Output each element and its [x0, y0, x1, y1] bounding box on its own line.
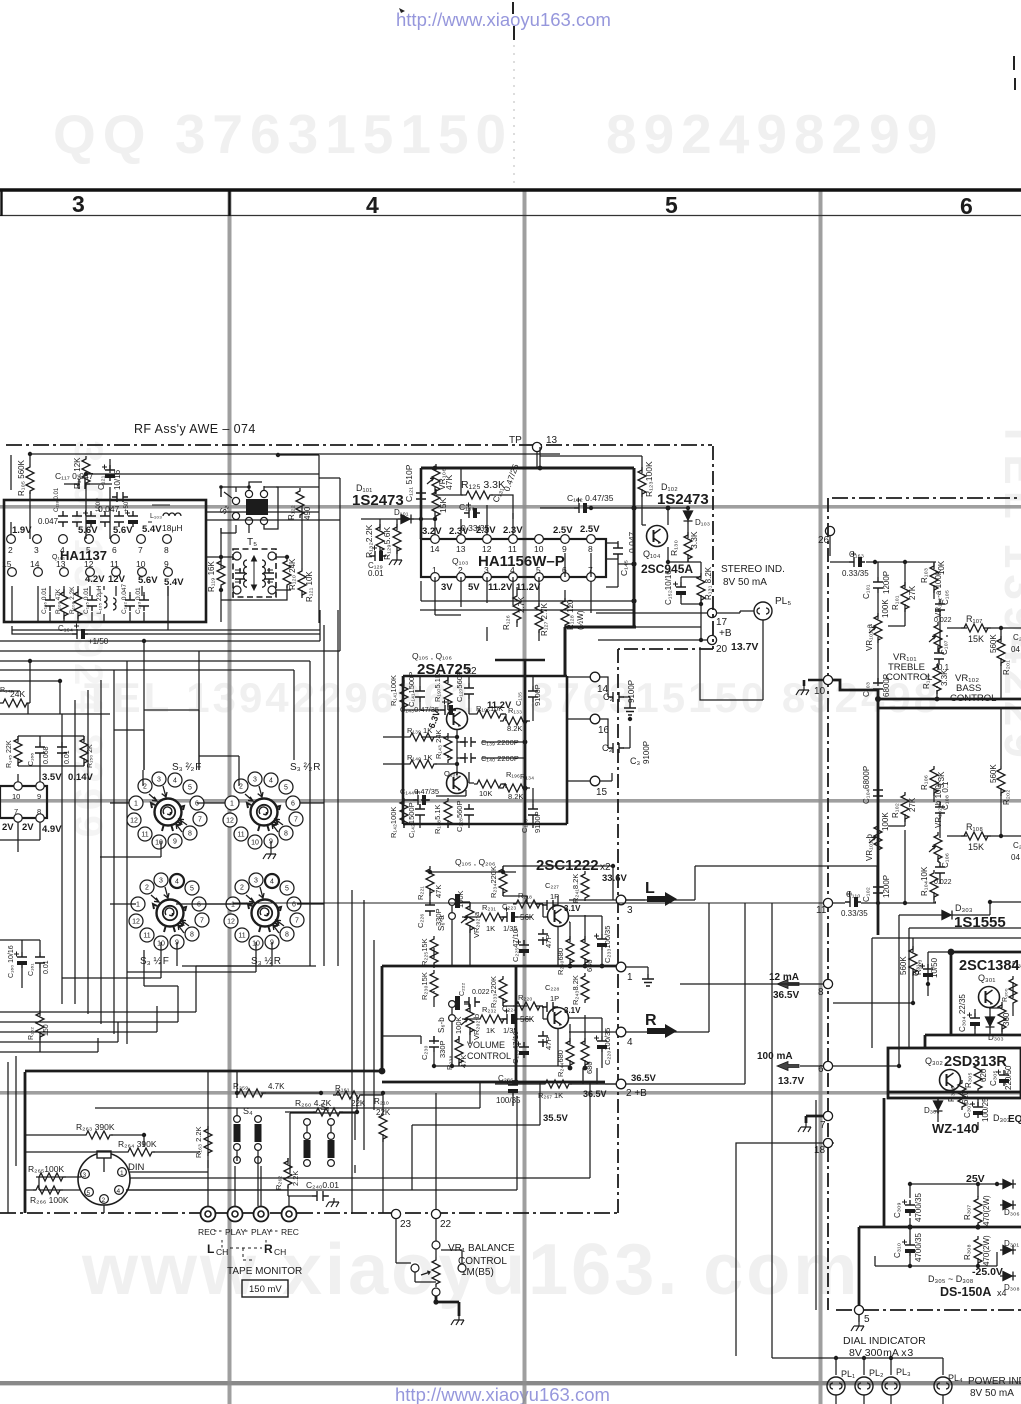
svg-text:150 mV: 150 mV [249, 1284, 282, 1295]
svg-text:S₅: S₅ [320, 1102, 330, 1112]
svg-text:27K: 27K [908, 797, 917, 812]
capacitor C110 0.33/35 [845, 892, 861, 908]
wire bus upper left [0, 610, 338, 1044]
svg-text:PLAY: PLAY [251, 1227, 272, 1237]
jack PLAY L [228, 1207, 243, 1222]
svg-text:S₄: S₄ [243, 1106, 253, 1116]
svg-text:5: 5 [86, 545, 91, 555]
svg-text:C₁₃₀: C₁₃₀ [459, 502, 475, 512]
lamp PL2 [855, 1377, 873, 1395]
svg-text:470(2W): 470(2W) [982, 1235, 991, 1266]
svg-text:D₃₀: D₃₀ [1012, 960, 1021, 969]
svg-text:R₁₂₉5.6K: R₁₂₉5.6K [382, 527, 392, 560]
svg-text:QQ 376315150: QQ 376315150 [53, 103, 513, 165]
node 16 [590, 714, 600, 724]
resistor R135 10K [474, 710, 504, 718]
svg-text:R₁₀₃: R₁₀₃ [920, 568, 929, 583]
wire thick bus [833, 680, 1021, 935]
svg-text:VR₁₀₂-b 100K: VR₁₀₂-b 100K [934, 779, 943, 828]
jack REC L [201, 1207, 216, 1222]
resistor R120 24K [283, 558, 291, 588]
svg-text:04: 04 [1011, 853, 1020, 862]
resistor R107 15K [961, 624, 991, 632]
svg-text:4.7K: 4.7K [268, 1082, 285, 1091]
svg-text:10: 10 [814, 686, 826, 697]
svg-text:360: 360 [1002, 1012, 1011, 1026]
transistor Q104 2SC945A [647, 526, 668, 547]
svg-text:11: 11 [816, 905, 827, 916]
svg-text:6: 6 [960, 193, 973, 219]
svg-text:560K: 560K [899, 956, 908, 975]
capacitor C128 510P [416, 488, 426, 504]
svg-text:5.6V: 5.6V [113, 525, 133, 536]
capacitor C144 0.47/35 [413, 790, 429, 806]
capacitor C136 9100P [528, 804, 538, 820]
svg-text:R₁₃₃: R₁₃₃ [508, 706, 522, 715]
SECTIONS [0, 422, 712, 835]
svg-text:R₃₀₀: R₃₀₀ [1002, 988, 1009, 1002]
svg-text:D₁₀₁: D₁₀₁ [394, 508, 409, 517]
resistor R126 2.7K [513, 593, 521, 623]
resistor R267 1K [542, 1080, 572, 1088]
svg-text:100K: 100K [454, 1016, 463, 1034]
IC box partial left [0, 786, 47, 818]
svg-text:27K: 27K [908, 585, 917, 600]
svg-text:13: 13 [546, 435, 558, 446]
resistor R244 680 [566, 1038, 574, 1068]
resistor R140 1K [407, 760, 437, 768]
svg-text:R₂₅₉: R₂₅₉ [233, 1082, 248, 1091]
transistor Q206 [548, 1008, 569, 1029]
node 15 [590, 776, 600, 786]
svg-text:2: 2 [458, 565, 463, 575]
svg-text:0.022: 0.022 [472, 989, 490, 996]
resistor R243 8.2K [581, 973, 589, 1003]
svg-text:C₁₁₀: C₁₁₀ [846, 890, 861, 899]
capacitor C103 6800P [873, 678, 883, 694]
svg-text:1200P: 1200P [882, 571, 891, 594]
svg-text:R₁₂₃100K: R₁₂₃100K [644, 461, 654, 497]
capacitor C166 0.068 [35, 742, 45, 758]
svg-text:2V: 2V [2, 822, 14, 833]
dash-dot main-amp border [832, 497, 1021, 499]
svg-text:8.2K: 8.2K [508, 792, 523, 801]
svg-text:http://www.xiaoyu163.com: http://www.xiaoyu163.com [395, 1384, 610, 1404]
node 22 [431, 1209, 440, 1218]
svg-text:4700/35: 4700/35 [914, 1193, 923, 1222]
svg-text:VR₁₀₂-a 100K: VR₁₀₂-a 100K [934, 569, 943, 618]
svg-text:1P: 1P [550, 994, 559, 1003]
svg-text:R₂₄₄680: R₂₄₄680 [556, 1050, 565, 1077]
capacitor C164 1/50 [72, 624, 88, 640]
svg-text:100/25: 100/25 [981, 1097, 990, 1122]
svg-text:R₁₀₈: R₁₀₈ [966, 822, 983, 832]
components below IC bottom row [41, 583, 149, 619]
svg-text:3: 3 [34, 545, 39, 555]
node 14 [590, 672, 600, 682]
capacitor C107 0.047 [74, 479, 90, 489]
svg-text:D₁₀₃: D₁₀₃ [695, 518, 710, 527]
svg-text:REC: REC [281, 1227, 299, 1237]
capacitor C132 0.47/35 [574, 498, 590, 514]
svg-text:C₁₃₂ 0.47/35: C₁₃₂ 0.47/35 [567, 493, 614, 503]
svg-text:R₁₄₃ 24K: R₁₄₃ 24K [434, 730, 443, 760]
svg-text:3: 3 [484, 565, 489, 575]
svg-text:04: 04 [1011, 645, 1020, 654]
wire thick tape frame [25, 1072, 26, 1213]
svg-text:47P: 47P [544, 1037, 553, 1050]
svg-text:PLAY: PLAY [225, 1227, 246, 1237]
resistor R102 27K [901, 792, 909, 822]
svg-text:220/50: 220/50 [1004, 1065, 1013, 1090]
capacitor C105 0.022 [935, 599, 945, 615]
svg-text:Q₁₀₅ , Q₂₀₆: Q₁₀₅ , Q₂₀₆ [455, 857, 495, 867]
pot VR101-a 100K [869, 613, 882, 643]
svg-text:C₁₅₂10/16: C₁₅₂10/16 [664, 570, 673, 605]
svg-text:8: 8 [37, 807, 41, 816]
resistor R108 15K [961, 832, 991, 840]
svg-text:DS-150A: DS-150A [940, 1285, 991, 1299]
svg-text:Q₃₀₂: Q₃₀₂ [925, 1056, 943, 1066]
svg-text:R₃₀₆: R₃₀₆ [947, 1086, 956, 1102]
svg-text:VR₁₀₁-a: VR₁₀₁-a [865, 624, 874, 651]
svg-text:Q₃₀₁: Q₃₀₁ [978, 973, 995, 983]
wires rotary area [62, 756, 823, 1214]
svg-text:3.2V: 3.2V [422, 526, 442, 537]
svg-text:100 mA: 100 mA [757, 1051, 793, 1062]
svg-text:R₁₀₇: R₁₀₇ [966, 614, 982, 624]
resistor R103 10K [930, 563, 938, 593]
svg-text:C₁₃₆: C₁₃₆ [520, 819, 529, 833]
capacitor C224 1/35 [502, 1009, 518, 1025]
svg-text:892498299: 892498299 [606, 103, 944, 165]
capacitor C139 2200P [460, 737, 476, 747]
svg-text:9100P: 9100P [642, 741, 651, 764]
svg-text:C₁₃₅: C₁₃₅ [514, 692, 523, 706]
svg-text:3: 3 [72, 191, 85, 217]
svg-text:10: 10 [534, 544, 544, 554]
capacitor C307 100/25 [970, 1102, 983, 1119]
svg-text:1K: 1K [486, 924, 495, 933]
resistor R306 620 [958, 1080, 966, 1110]
svg-text:C₂₂₆47/10: C₂₂₆47/10 [511, 1031, 520, 1064]
svg-text:D₃₀₁: D₃₀₁ [1004, 1239, 1019, 1248]
node 18 [823, 1138, 832, 1147]
resistor R225 15K [430, 936, 438, 966]
svg-text:18μH: 18μH [162, 523, 183, 533]
capacitor C229 47P [538, 1031, 548, 1047]
switch S2 + transformer T4 [217, 482, 278, 533]
svg-text:R₂₃₀15K: R₂₃₀15K [420, 972, 429, 1000]
svg-text:CH: CH [216, 1247, 228, 1257]
op-amp U2 HA1156W-P IC box [421, 539, 606, 577]
svg-text:R₁₃₁ 8.2K: R₁₃₁ 8.2K [704, 566, 713, 600]
resistor R305 620 [974, 1062, 982, 1092]
node 20 +B [707, 635, 716, 644]
node 26 [825, 526, 834, 535]
resistor R232 1K [477, 1015, 507, 1023]
svg-text:R₁₀₅ 560K: R₁₀₅ 560K [17, 459, 26, 496]
svg-text:20: 20 [716, 644, 728, 655]
svg-text:0.14V: 0.14V [68, 772, 93, 783]
svg-text:3.1V: 3.1V [564, 1006, 581, 1015]
svg-text:C₁₄₅: C₁₄₅ [619, 560, 629, 576]
svg-text:R₂₁₀: R₂₁₀ [374, 1097, 389, 1106]
svg-text:12V: 12V [108, 574, 126, 585]
svg-text:C₁₄₁1500P: C₁₄₁1500P [407, 672, 416, 707]
resistor R240 680 [566, 936, 574, 966]
svg-text:+B: +B [719, 628, 732, 639]
svg-text:C₂₂₅47/10: C₂₂₅47/10 [511, 929, 520, 962]
svg-text:1S2473: 1S2473 [352, 492, 404, 509]
svg-text:C₂₂₂: C₂₂₂ [459, 983, 466, 996]
transistor Q105 [447, 709, 468, 730]
svg-text:R₁₂₈ 120: R₁₂₈ 120 [566, 599, 575, 630]
svg-text:R₂₆₇ 1K: R₂₆₇ 1K [538, 1091, 563, 1100]
switch S6-b [449, 1001, 456, 1008]
capacitor C236 100/35 [505, 1080, 518, 1097]
pot VR202-a 100K [461, 903, 474, 933]
resistor R263 390K [83, 1131, 113, 1139]
svg-text:C₁₀₇: C₁₀₇ [940, 640, 949, 655]
svg-text:R₁₄₅ 22K: R₁₄₅ 22K [6, 740, 13, 768]
svg-text:11.2V: 11.2V [516, 582, 541, 593]
svg-text:R₁₀₂: R₁₀₂ [891, 803, 900, 818]
resistor R132 2.2K [376, 524, 384, 554]
capacitor C143 0.47/35 [440, 700, 456, 716]
svg-text:C₁₂₁: C₁₂₁ [97, 475, 106, 490]
svg-text:11: 11 [508, 544, 517, 554]
svg-text:C₂₄₀0.01: C₂₄₀0.01 [306, 1180, 339, 1190]
capacitor C161 0.01 [35, 952, 45, 968]
capacitor C311 10/50 [920, 964, 933, 981]
svg-text:9100P: 9100P [533, 684, 542, 706]
svg-text:0.047: 0.047 [98, 504, 120, 514]
svg-text:http://www.xiaoyu163.com: http://www.xiaoyu163.com [396, 9, 611, 30]
svg-text:R₁₂₀ 24K: R₁₂₀ 24K [288, 558, 297, 590]
capacitor C225 47/10 [516, 940, 529, 957]
capacitor C305 220/50 [996, 1070, 1009, 1087]
svg-text:1.9V: 1.9V [12, 525, 32, 536]
wire lamp feed [772, 903, 943, 1375]
svg-text:47K: 47K [444, 475, 454, 490]
svg-text:23: 23 [400, 1219, 412, 1230]
svg-text:VR₂₀₂-b: VR₂₀₂-b [472, 1014, 481, 1040]
svg-text:PL₃: PL₃ [896, 1367, 911, 1377]
svg-text:5.6V: 5.6V [78, 525, 98, 536]
svg-text:8: 8 [164, 545, 169, 555]
svg-text:R₂₂₀: R₂₂₀ [518, 993, 532, 1002]
capacitor C226 47/10 [516, 1042, 529, 1059]
DIN connector [78, 1151, 145, 1205]
wires RF area [0, 454, 560, 770]
svg-text:4: 4 [60, 545, 65, 555]
top border rule [0, 188, 1021, 192]
svg-text:R₁₂₇ 2.7K: R₁₂₇ 2.7K [540, 602, 549, 636]
svg-text:5: 5 [536, 565, 541, 575]
svg-text:C₁₆₃: C₁₆₃ [849, 550, 864, 559]
resistor R202 560K [997, 766, 1005, 796]
resistor R138 5.1K [444, 798, 452, 828]
svg-text:VR₂₀₂-a: VR₂₀₂-a [472, 911, 481, 938]
node 5 on dashdot with ground [854, 1305, 863, 1314]
svg-text:9100P: 9100P [627, 680, 636, 703]
svg-text:R₁₅₀ 2K: R₁₅₀ 2K [87, 744, 94, 768]
resistor R305 360 [998, 1002, 1006, 1032]
svg-text:13.7V: 13.7V [731, 641, 758, 653]
svg-text:EQ: EQ [1008, 1114, 1021, 1125]
svg-text:10/16: 10/16 [113, 469, 122, 490]
svg-text:VR₁₀₁-b: VR₁₀₁-b [865, 834, 874, 861]
svg-text:C₁₆₁: C₁₆₁ [28, 963, 35, 976]
svg-text:R₃₀₇: R₃₀₇ [963, 1205, 972, 1220]
svg-text:R₂₀₁: R₂₀₁ [1002, 660, 1011, 675]
svg-text:490: 490 [303, 506, 312, 520]
svg-text:R₂₄₀680: R₂₄₀680 [556, 948, 565, 975]
capacitor C142 1500P [415, 804, 425, 820]
wires tape area [25, 1072, 590, 1213]
svg-text:C₂₃₃100/35: C₂₃₃100/35 [603, 926, 612, 963]
pot VR202-b 100K [461, 1005, 474, 1035]
svg-text:1: 1 [120, 1170, 124, 1177]
svg-text:C₁₂₈560P: C₁₂₈560P [455, 801, 464, 832]
svg-text:4.2V: 4.2V [85, 574, 105, 585]
diode D307 [1000, 1246, 1016, 1255]
diode D103 [684, 508, 693, 524]
svg-text:4: 4 [366, 192, 379, 218]
svg-text:C₃₀₇: C₃₀₇ [963, 1103, 972, 1118]
svg-text:0.047: 0.047 [38, 517, 59, 526]
wire thick block frame [403, 676, 567, 824]
svg-text:100K: 100K [456, 890, 465, 908]
svg-text:14: 14 [30, 559, 40, 569]
resistor R201 560K [997, 636, 1005, 666]
svg-text:C₃₁₁: C₃₁₁ [912, 961, 921, 976]
svg-text:4: 4 [510, 565, 515, 575]
svg-text:15: 15 [2, 559, 12, 569]
svg-text:C₁₂₁ 510P: C₁₂₁ 510P [404, 464, 414, 502]
resistor R105 3.3K [933, 664, 941, 694]
wire thick bus into supply [888, 1091, 1021, 1094]
capacitor C135 9100P [528, 686, 538, 702]
svg-text:C₁₂₆ 0.01: C₁₂₆ 0.01 [41, 587, 48, 614]
svg-text:D₃₀₃: D₃₀₃ [955, 903, 973, 913]
150mV box [242, 1280, 288, 1297]
resistor R238 47K [455, 1036, 463, 1066]
svg-text:(½W): (½W) [576, 610, 585, 630]
capacitor C108 0.1 [935, 802, 945, 818]
svg-text:15K: 15K [968, 634, 984, 644]
svg-text:R₁₃₉ 1K: R₁₃₉ 1K [407, 726, 432, 735]
capacitor C228 1P [542, 1002, 558, 1012]
IC pins bottom row [8, 568, 173, 577]
svg-text:R: R [264, 1242, 273, 1256]
svg-text:0.01: 0.01 [64, 750, 71, 764]
svg-text:1K: 1K [486, 1026, 495, 1035]
svg-text:5.6V: 5.6V [138, 575, 158, 586]
svg-text:C₂₂₇: C₂₂₇ [545, 881, 559, 890]
svg-text:R₂₆₃ 390K: R₂₆₃ 390K [76, 1122, 115, 1132]
capacitor C219 47P [538, 929, 548, 945]
svg-text:2.3V: 2.3V [476, 525, 496, 536]
resistor R145 22K [14, 736, 22, 766]
svg-text:0.01: 0.01 [43, 960, 50, 974]
resistor R203 560K [909, 946, 917, 976]
capacitor C227 1P [542, 900, 558, 910]
svg-text:15K: 15K [438, 498, 448, 513]
svg-text:330P: 330P [438, 1040, 447, 1058]
svg-text:5.4V: 5.4V [142, 524, 162, 535]
svg-text:VOLUME: VOLUME [467, 1040, 505, 1050]
RF assembly dash-dot border [6, 444, 712, 446]
svg-text:TAPE MONITOR: TAPE MONITOR [227, 1266, 302, 1277]
wire B+ thick rail [421, 468, 636, 676]
capacitor C304 22/35 [967, 1013, 980, 1030]
resistor R106 3.3K [930, 766, 938, 796]
svg-text:10K: 10K [479, 789, 492, 798]
svg-text:2V: 2V [22, 822, 34, 833]
capacitor C? 0.047 [112, 492, 128, 502]
capacitor C223 1/35 [502, 907, 518, 923]
svg-text:8V 50 mA: 8V 50 mA [723, 577, 767, 588]
capacitor C167 0.01 [57, 742, 67, 758]
svg-text:C₁₂₇560P: C₁₂₇560P [455, 671, 464, 702]
svg-text:CH: CH [274, 1247, 286, 1257]
svg-text:7: 7 [820, 1120, 826, 1131]
svg-text:DIN: DIN [128, 1162, 145, 1173]
svg-text:13: 13 [56, 559, 66, 569]
pot VR102-a 100K [929, 622, 942, 652]
svg-text:11.2V: 11.2V [488, 582, 513, 593]
svg-text:R₂₄₁8.2K: R₂₄₁8.2K [571, 874, 580, 903]
svg-text:Q₁₀₄: Q₁₀₄ [643, 549, 661, 559]
svg-text:L₁₀₅ 22μH: L₁₀₅ 22μH [96, 585, 103, 614]
svg-text:R₂₀₂: R₂₀₂ [1002, 790, 1011, 805]
ground [624, 703, 636, 715]
svg-text:4700/35: 4700/35 [914, 1233, 923, 1262]
svg-text:12: 12 [84, 559, 94, 569]
svg-text:R: R [645, 1012, 657, 1029]
svg-text:R₁₁₉ 16K: R₁₁₉ 16K [207, 561, 216, 592]
dash-dot border right of RF [712, 446, 714, 649]
svg-text:16: 16 [598, 725, 610, 736]
resistor R104 10K [930, 870, 938, 900]
resistor R106 12K [82, 456, 90, 486]
svg-text:33.6V: 33.6V [602, 873, 627, 884]
svg-text:2.3V: 2.3V [449, 526, 469, 537]
svg-text:R₁₀₆ 12K: R₁₀₆ 12K [73, 457, 82, 489]
svg-text:T₅: T₅ [247, 537, 257, 548]
node 7 with ground [823, 1111, 832, 1120]
resistor R218 [513, 900, 543, 908]
resistor R266 100K [33, 1186, 63, 1194]
svg-text:8.2K: 8.2K [507, 724, 522, 733]
svg-text:13.7V: 13.7V [778, 1076, 804, 1087]
node 6 with current arrow [823, 1061, 832, 1070]
svg-text:11: 11 [110, 559, 119, 569]
node 8 with current arrow [823, 979, 832, 988]
svg-text:D₃₀₅ ~ D₃₀₈: D₃₀₅ ~ D₃₀₈ [928, 1274, 974, 1284]
capacitor C222 0.022 [464, 997, 480, 1007]
IC pins bottom [431, 573, 596, 582]
svg-text:C₂₂₈: C₂₂₈ [545, 983, 559, 992]
node 17 [707, 608, 716, 617]
resistor R142 100K [400, 798, 408, 828]
svg-text:PL₁: PL₁ [841, 1369, 855, 1379]
resistor R101 27K [901, 582, 909, 612]
svg-text:13: 13 [456, 544, 466, 554]
transistor Q106 [447, 773, 468, 794]
